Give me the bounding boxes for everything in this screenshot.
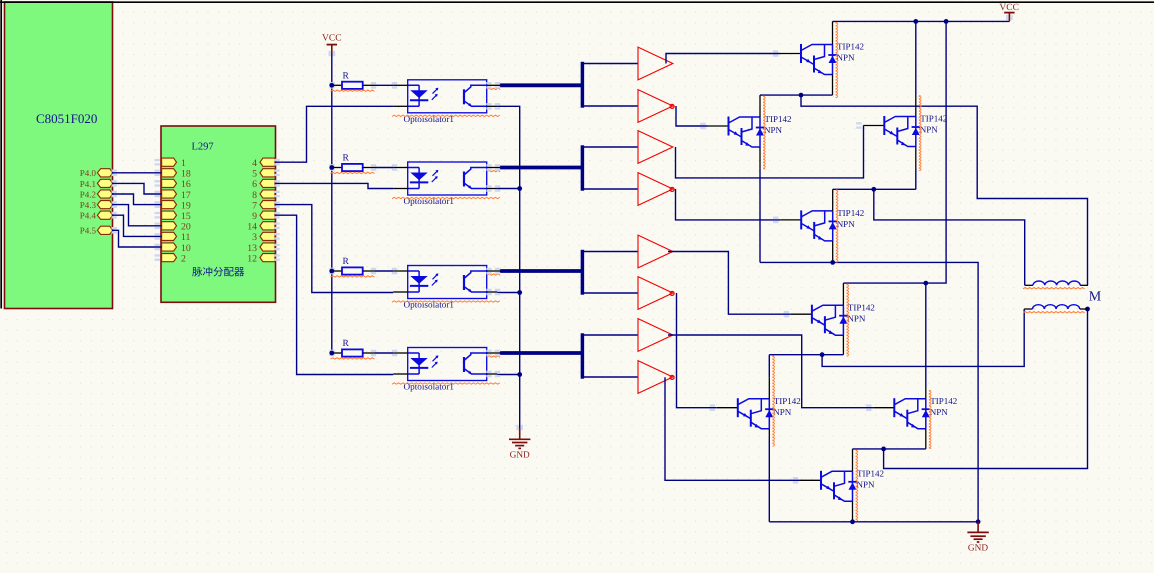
optoisolator U3 Optoisolator1 bbox=[393, 80, 500, 113]
junction bottom coil right bbox=[1085, 307, 1090, 312]
bus stub to buffer 2 bbox=[583, 105, 638, 107]
wire buffer4 to Q4 base bbox=[676, 189, 781, 220]
wire opto2 emitter to GND rail bbox=[497, 188, 520, 190]
svg-text:15: 15 bbox=[181, 211, 191, 222]
collector pin Q8 bbox=[852, 449, 854, 471]
junction opto2-GND rail bbox=[517, 186, 522, 191]
svg-text:P4.2: P4.2 bbox=[80, 189, 96, 199]
bus bar 4 bbox=[581, 333, 585, 378]
selection squiggle at opto2 output pin bbox=[487, 170, 500, 171]
collector pin Q5 bbox=[842, 283, 844, 305]
wire opto3 emitter to GND rail bbox=[497, 292, 520, 294]
svg-text:16: 16 bbox=[181, 179, 191, 190]
sheet border left bbox=[0, 0, 2, 309]
transistor Q8 TIP142 bbox=[800, 471, 857, 502]
collector pin Q6 bbox=[768, 355, 770, 378]
sheet entry pin 14 on L297 right bbox=[260, 222, 275, 230]
transistor Q2 TIP142 bbox=[708, 117, 765, 148]
bus wire from opto3 to buffer pair 3 bbox=[500, 269, 583, 273]
sheet entry P4.1 on C8051F020 bbox=[97, 179, 112, 187]
svg-text:TIP142: TIP142 bbox=[930, 396, 957, 406]
svg-text:R: R bbox=[343, 154, 350, 164]
selection squiggle under opto1 bbox=[392, 115, 500, 116]
junction node A2 bbox=[871, 187, 876, 192]
svg-text:12: 12 bbox=[247, 253, 257, 264]
emitter pin Q6 to ground wire bbox=[768, 429, 770, 438]
svg-text:NPN: NPN bbox=[837, 219, 856, 229]
wire buffer1 to Q1 base bbox=[666, 54, 780, 64]
selection dash line at Q7 bbox=[929, 390, 931, 449]
junction ground bus at GND symbol bbox=[976, 519, 981, 524]
junction node B2 branch bbox=[820, 352, 825, 357]
sheet entry pin 19 on L297 left bbox=[162, 201, 177, 209]
svg-text:P4.1: P4.1 bbox=[80, 179, 96, 189]
wire buffer3 to Q3 base bbox=[676, 126, 864, 178]
svg-text:19: 19 bbox=[181, 200, 191, 211]
resistor R4 bbox=[332, 349, 393, 356]
svg-text:R: R bbox=[343, 339, 350, 349]
sheet entry pin 9 on L297 right bbox=[260, 211, 275, 219]
junction node B1 bbox=[881, 447, 886, 452]
svg-text:20: 20 bbox=[181, 222, 191, 233]
wire node B2 to bottom coil left bbox=[822, 309, 1024, 366]
buffer U7 bbox=[638, 131, 673, 164]
sheet entry pin 5 on L297 right bbox=[260, 169, 275, 177]
sheet border top bbox=[0, 1, 1154, 3]
svg-text:18: 18 bbox=[181, 169, 191, 180]
emitter pin Q7 bbox=[925, 429, 927, 449]
bus stub to buffer 1 bbox=[583, 63, 638, 65]
inductor L1 motor winding A bbox=[1025, 281, 1088, 285]
wire pin 4 to opto1 cathode bbox=[275, 106, 393, 162]
svg-text:5: 5 bbox=[252, 169, 257, 180]
wire opto1 emitter to GND rail bbox=[497, 106, 520, 431]
svg-text:R: R bbox=[343, 71, 350, 81]
selection squiggle under opto3 bbox=[392, 301, 500, 302]
bus stub to buffer 3 bbox=[583, 146, 638, 148]
sheet entry pin 2 on L297 left bbox=[162, 254, 177, 262]
selection dash line at Q2 bbox=[763, 96, 765, 170]
ground symbol GND right bbox=[967, 522, 988, 542]
sheet entry P4.5 on C8051F020 bbox=[97, 226, 112, 234]
bus stub to buffer 4 bbox=[583, 188, 638, 190]
svg-text:GND: GND bbox=[510, 450, 530, 460]
sheet symbol U2 L297 bbox=[161, 126, 276, 302]
bus wire from opto2 to buffer pair 2 bbox=[500, 166, 583, 170]
sheet entry pin 11 on L297 left bbox=[162, 232, 177, 240]
svg-text:VCC: VCC bbox=[999, 3, 1019, 13]
svg-text:NPN: NPN bbox=[773, 407, 792, 417]
ground symbol GND left bbox=[509, 428, 530, 448]
bus bar 2 bbox=[581, 145, 585, 190]
selection squiggle under winding B bbox=[1023, 312, 1085, 313]
junction VCC-946 drop bbox=[944, 19, 949, 24]
power port VCC right bbox=[1004, 13, 1014, 22]
junction R3 on VCC rail bbox=[329, 269, 334, 274]
svg-text:4: 4 bbox=[252, 158, 257, 169]
sheet entry pin 1 on L297 left bbox=[162, 158, 177, 166]
svg-text:14: 14 bbox=[247, 222, 257, 233]
power port VCC left bbox=[327, 45, 337, 53]
sheet entry pin 4 on L297 right bbox=[260, 158, 275, 166]
sheet entry pin 15 on L297 left bbox=[162, 211, 177, 219]
svg-text:NPN: NPN bbox=[764, 125, 783, 135]
transistor Q7 TIP142 bbox=[873, 398, 930, 429]
wire opto4 emitter to GND rail bbox=[497, 374, 520, 376]
wire Q3 emitter to Q4 collector bbox=[833, 188, 916, 190]
selection squiggle under R2 bbox=[331, 172, 375, 173]
svg-text:3: 3 bbox=[252, 232, 257, 243]
bus stub to buffer 8 bbox=[583, 376, 638, 378]
junction VCC-Q3 collector bbox=[913, 19, 918, 24]
sheet entry P4.3 on C8051F020 bbox=[97, 201, 112, 209]
svg-text:11: 11 bbox=[181, 232, 191, 243]
selection squiggle under opto4 bbox=[392, 383, 500, 384]
svg-text:NPN: NPN bbox=[847, 313, 866, 323]
collector pin Q3 wire to VCC bbox=[915, 21, 917, 94]
inductor L2 motor winding B bbox=[1024, 305, 1087, 309]
selection dash line at Q1 bbox=[836, 22, 838, 98]
junction R2 on VCC rail bbox=[329, 165, 334, 170]
wire P4.5 to pin 10 bbox=[112, 230, 162, 247]
svg-text:P4.3: P4.3 bbox=[80, 200, 97, 210]
sheet entry pin 8 on L297 right bbox=[260, 190, 275, 198]
wire Q7 emitter to Q8 collector bbox=[853, 448, 926, 450]
sheet entry pin 17 on L297 left bbox=[162, 190, 177, 198]
bus bar 1 bbox=[581, 62, 585, 108]
collector pin Q4 bbox=[832, 189, 834, 211]
selection squiggle under opto2 bbox=[392, 197, 500, 198]
resistor R1 bbox=[332, 82, 393, 89]
collector pin Q7 wire bbox=[925, 283, 927, 387]
transistor Q1 TIP142 bbox=[780, 44, 837, 75]
junction Q7 collector branch bbox=[923, 281, 928, 286]
junction R1 on VCC rail bbox=[329, 83, 334, 88]
selection dash line at Q5 bbox=[846, 284, 848, 357]
wire buffer2 to Q2 base bbox=[676, 106, 708, 126]
sheet entry P4.4 on C8051F020 bbox=[97, 211, 112, 219]
wire buffer7 to Q7 base bbox=[668, 335, 873, 408]
buffer U6 inverting bbox=[638, 90, 674, 123]
junction Q4 emitter on ground return bbox=[830, 260, 835, 265]
wire buffer6 to Q6 base bbox=[677, 293, 717, 408]
svg-text:7: 7 bbox=[252, 200, 257, 211]
selection squiggle under R1 bbox=[331, 90, 375, 91]
bus stub to buffer 7 bbox=[583, 334, 638, 336]
buffer U11 bbox=[638, 319, 673, 352]
optoisolator U6 Optoisolator1 bbox=[393, 348, 500, 381]
svg-text:TIP142: TIP142 bbox=[837, 208, 864, 218]
selection squiggle at opto3 output pin bbox=[487, 274, 500, 275]
svg-text:TIP142: TIP142 bbox=[774, 396, 801, 406]
sheet entry P4.2 on C8051F020 bbox=[97, 190, 112, 198]
wire P4.1 to pin 17 bbox=[112, 183, 162, 194]
svg-text:6: 6 bbox=[252, 179, 257, 190]
wire node A2 to top coil left bbox=[874, 189, 1025, 285]
transistor Q4 TIP142 bbox=[780, 210, 837, 241]
svg-text:TIP142: TIP142 bbox=[837, 42, 864, 52]
sheet entry pin 3 on L297 right bbox=[260, 232, 275, 240]
emitter pin Q1 bbox=[832, 75, 834, 96]
emitter pin Q5 bbox=[842, 335, 844, 355]
collector pin Q1 bbox=[832, 21, 834, 44]
transistor Q6 TIP142 bbox=[717, 398, 774, 429]
buffer U10 inverting bbox=[638, 277, 674, 310]
optoisolator U4 Optoisolator1 bbox=[393, 162, 500, 195]
wire 946 drop to Q5 collector bbox=[843, 21, 946, 283]
svg-text:GND: GND bbox=[968, 543, 988, 553]
resistor R2 bbox=[332, 164, 393, 171]
svg-text:8: 8 bbox=[252, 190, 257, 201]
selection squiggle under R3 bbox=[331, 276, 375, 277]
svg-text:NPN: NPN bbox=[857, 480, 876, 490]
junction opto3-GND rail bbox=[517, 290, 522, 295]
svg-text:P4.0: P4.0 bbox=[80, 168, 97, 178]
sheet entry pin 18 on L297 left bbox=[162, 169, 177, 177]
buffer U12 inverting bbox=[638, 361, 674, 394]
sheet symbol U1 C8051F020 bbox=[5, 2, 113, 309]
junction Q8 emitter on ground bus bbox=[850, 519, 855, 524]
selection dash line at Q8 bbox=[856, 450, 858, 522]
svg-text:P4.5: P4.5 bbox=[80, 226, 97, 236]
svg-text:NPN: NPN bbox=[920, 125, 939, 135]
sheet entry pin 16 on L297 left bbox=[162, 179, 177, 187]
optoisolator U5 Optoisolator1 bbox=[393, 266, 500, 299]
selection squiggle under winding A bbox=[1023, 288, 1085, 289]
sheet entry pin 6 on L297 right bbox=[260, 179, 275, 187]
sheet entry pin 10 on L297 left bbox=[162, 243, 177, 251]
buffer U5 bbox=[638, 47, 673, 80]
wire P4.4 to pin 11 bbox=[112, 215, 162, 236]
wire pin 7 to opto3 cathode bbox=[275, 205, 393, 293]
bus stub to buffer 5 bbox=[583, 251, 638, 253]
svg-text:TIP142: TIP142 bbox=[920, 114, 947, 124]
emitter pin Q8 bbox=[852, 501, 854, 522]
selection squiggle at opto1 output pin bbox=[487, 88, 500, 89]
svg-text:2: 2 bbox=[181, 253, 186, 264]
wire VCC rail vertical bbox=[331, 53, 333, 353]
svg-text:NPN: NPN bbox=[837, 53, 856, 63]
svg-text:VCC: VCC bbox=[322, 34, 342, 44]
svg-text:10: 10 bbox=[181, 243, 191, 254]
sheet entry pin 7 on L297 right bbox=[260, 201, 275, 209]
svg-text:17: 17 bbox=[181, 190, 191, 201]
sheet entry pin 12 on L297 right bbox=[260, 254, 275, 262]
junction node A1 bbox=[799, 93, 804, 98]
wire VCC top rail bbox=[833, 20, 1010, 22]
transistor Q3 TIP142 bbox=[863, 116, 920, 147]
wire P4.3 to pin 20 bbox=[112, 205, 162, 226]
bus wire from opto1 to buffer pair 1 bbox=[500, 83, 583, 87]
resistor R3 bbox=[332, 267, 393, 274]
svg-text:M: M bbox=[1089, 289, 1102, 304]
svg-text:C8051F020: C8051F020 bbox=[36, 111, 97, 126]
sheet entry pin 20 on L297 left bbox=[162, 222, 177, 230]
wire buffer5 to Q5 base bbox=[668, 252, 791, 315]
selection dash line at Q6 bbox=[772, 356, 774, 447]
svg-text:NPN: NPN bbox=[930, 407, 949, 417]
bus wire from opto4 to buffer pair 4 bbox=[500, 351, 583, 355]
emitter pin Q3 bbox=[915, 147, 917, 169]
selection squiggle under R4 bbox=[331, 358, 375, 359]
svg-text:P4.4: P4.4 bbox=[80, 211, 97, 221]
svg-text:9: 9 bbox=[252, 211, 257, 222]
selection dash line at Q4 bbox=[836, 190, 838, 263]
wire pin 9 to opto4 cathode bbox=[275, 215, 393, 374]
svg-text:L297: L297 bbox=[192, 142, 214, 153]
transistor Q5 TIP142 bbox=[791, 305, 848, 336]
wire P4.2 to pin 19 bbox=[112, 194, 162, 205]
wire pin 6 to opto2 cathode bbox=[275, 183, 393, 188]
wire Q5 emitter to Q6 collector bbox=[769, 354, 843, 356]
wire buffer8 to Q8 base bbox=[665, 377, 800, 480]
wire node B1 to bottom coil right bbox=[884, 309, 1088, 469]
junction opto4-GND rail bbox=[517, 372, 522, 377]
buffer U9 bbox=[638, 235, 673, 268]
buffer U8 inverting bbox=[638, 173, 674, 206]
collector pin Q2 bbox=[759, 95, 761, 117]
svg-text:R: R bbox=[343, 257, 350, 267]
selection dash line at Q3 bbox=[919, 95, 921, 171]
svg-text:TIP142: TIP142 bbox=[857, 469, 884, 479]
sheet entry pin 13 on L297 right bbox=[260, 243, 275, 251]
ground bus wire bottom bbox=[769, 521, 978, 523]
svg-text:TIP142: TIP142 bbox=[765, 114, 792, 124]
wire node A1 Q1 emitter to Q2 collector bbox=[760, 94, 833, 96]
svg-text:TIP142: TIP142 bbox=[848, 302, 875, 312]
svg-text:脉冲分配器: 脉冲分配器 bbox=[192, 267, 245, 279]
emitter pin Q4 bbox=[832, 241, 834, 263]
wire P4.0 to pin 18 bbox=[112, 172, 162, 174]
bus stub to buffer 6 bbox=[583, 292, 638, 294]
selection squiggle at opto4 output pin bbox=[487, 356, 500, 357]
sheet entry P4.0 on C8051F020 bbox=[97, 169, 112, 177]
wire node A1 to phase winding A (top coil right) bbox=[801, 95, 1088, 285]
bus bar 3 bbox=[581, 250, 585, 295]
svg-text:13: 13 bbox=[247, 243, 257, 254]
svg-text:1: 1 bbox=[181, 158, 186, 169]
junction R4 on VCC rail bbox=[329, 351, 334, 356]
wire Q2 emitter down to ground bus bbox=[759, 147, 761, 169]
